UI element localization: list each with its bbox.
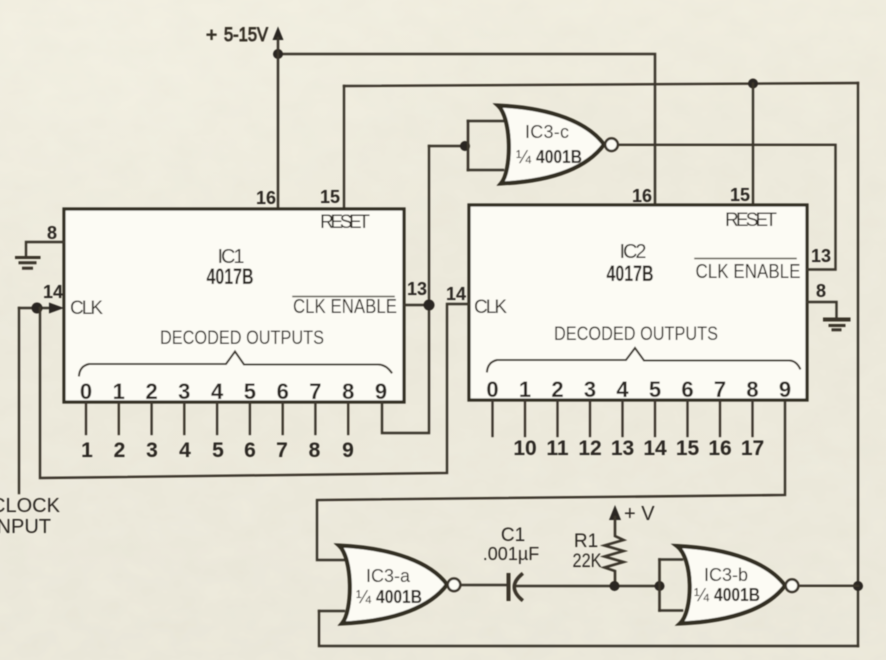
svg-text:1: 1 [519,377,531,402]
IC2 body [469,205,807,400]
svg-text:0: 0 [486,377,498,402]
svg-text:9: 9 [375,379,387,404]
svg-text:14: 14 [446,284,466,304]
svg-text:IC3-c: IC3-c [525,122,569,142]
svg-text:3: 3 [178,379,190,404]
svg-text:IC3-b: IC3-b [704,565,748,585]
svg-text:2: 2 [114,439,126,462]
svg-text:16: 16 [256,188,276,208]
svg-text:16: 16 [708,437,731,460]
node IC3-b input dot [655,581,665,591]
svg-text:7: 7 [276,439,288,462]
svg-text:INPUT: INPUT [0,516,51,538]
NOR gate IC3-b [677,546,798,624]
IC1 decoded output labels 1-9 [81,439,354,462]
svg-text:4: 4 [616,377,629,402]
pin 8 wire IC1 [26,242,64,256]
wire IC3-c output to IC2 pin 13 [618,145,836,270]
IC1 output digits 0-9 [80,379,387,404]
svg-text:14: 14 [43,282,63,302]
svg-text:13: 13 [407,279,427,299]
svg-text:8: 8 [746,377,758,402]
node R1 junction dot [610,581,620,591]
svg-text:3: 3 [584,377,596,402]
svg-text:9: 9 [779,377,791,402]
node pin13 junction dot [424,300,435,311]
wire IC3-a output to C1 [461,584,507,586]
NOR gate IC3-a [339,546,460,624]
wire CLOCK INPUT vertical [18,308,20,493]
svg-text:CLK: CLK [474,297,507,318]
wire IC3-b output to right rail [799,585,859,587]
svg-text:8: 8 [342,379,354,404]
node IC3-c input dot [460,141,470,151]
svg-text:2: 2 [551,377,563,402]
svg-text:5: 5 [649,377,661,402]
node IC3-b output junction [853,581,863,591]
svg-text:22K: 22K [573,551,602,572]
svg-text:3: 3 [146,439,158,462]
NOR gate IC3-c [498,106,618,184]
svg-text:.001µF: .001µF [483,544,539,564]
power +5-15V arrow [273,27,284,41]
wire IC2 output 9 down to IC3-a input [317,402,785,560]
svg-text:0: 0 [80,379,92,404]
svg-text:+ V: + V [624,503,655,525]
svg-text:DECODED OUTPUTS: DECODED OUTPUTS [554,324,718,345]
svg-text:CLOCK: CLOCK [0,495,61,517]
IC2 decoded output labels 10-17 [513,437,764,460]
svg-text:9: 9 [342,439,354,462]
svg-text:12: 12 [578,437,601,460]
svg-text:DECODED OUTPUTS: DECODED OUTPUTS [160,328,324,349]
svg-text:C1: C1 [501,525,525,546]
svg-text:1: 1 [81,439,93,462]
svg-text:4017B: 4017B [207,264,254,289]
IC3-b input stubs [660,558,683,561]
wire clock to IC1 CLK pin 14 [19,307,50,309]
ground IC2 [825,320,849,330]
svg-text:IC3-a: IC3-a [366,566,411,586]
svg-text:CLK: CLK [70,298,103,319]
svg-text:13: 13 [811,246,831,266]
IC3-c input stubs [468,120,503,123]
svg-text:RESET: RESET [320,212,370,233]
svg-text:5: 5 [212,439,224,462]
svg-text:5: 5 [244,379,256,404]
wire right rail (reset feedback from IC3-b output) [857,83,859,646]
wire bottom feedback to IC3-a input [319,611,858,646]
clock arrow into IC1 pin 14 [49,303,64,314]
wire IC1 output 9 to pin13/IC3-c net [382,146,429,433]
svg-text:6: 6 [277,379,289,404]
svg-text:IC2: IC2 [620,241,647,263]
wire IC2 pin 15 stem [752,84,754,206]
svg-text:+: + [206,25,217,46]
svg-text:15: 15 [320,187,340,207]
svg-text:17: 17 [741,437,764,460]
IC1 output stubs [86,403,348,434]
svg-text:R1: R1 [574,531,598,552]
svg-text:¼ 4001B: ¼ 4001B [694,585,760,605]
IC1 body [64,209,404,402]
svg-text:6: 6 [244,439,256,462]
svg-text:16: 16 [632,186,652,206]
power +V arrow [609,505,621,520]
wire IC1 pin 15 stem [343,86,345,209]
svg-text:CLK ENABLE: CLK ENABLE [696,261,801,283]
resistor R1 [605,517,624,586]
svg-text:15: 15 [676,437,700,460]
IC3-a bottom input stub [319,610,344,612]
IC3-c input tie bar [467,121,470,170]
capacitor C1 [509,575,522,600]
wire supply stem / IC1 pin 16 [277,38,280,209]
svg-text:4: 4 [211,379,224,404]
brace IC1 outputs [79,352,392,376]
svg-text:14: 14 [643,437,667,460]
pin 8 wire IC2 to ground [807,302,837,318]
svg-text:8: 8 [309,439,321,462]
svg-text:8: 8 [816,281,826,301]
svg-text:CLK ENABLE: CLK ENABLE [293,296,397,318]
ground IC1 [17,258,40,269]
svg-text:¼ 4001B: ¼ 4001B [516,147,582,167]
svg-text:13: 13 [611,437,634,460]
svg-text:4017B: 4017B [607,261,654,286]
svg-text:1: 1 [113,379,125,404]
brace IC2 outputs [487,348,800,372]
node supply junction dot [273,49,283,59]
svg-text:2: 2 [145,379,157,404]
svg-text:5-15V: 5-15V [224,25,268,46]
node RESET junction dot at IC2 pin15 [748,79,758,89]
wire C1 to IC3-b input [517,585,660,587]
wire RESET net: IC1 pin15 to IC2 pin15 to right rail [344,83,858,86]
wire IC1 pin 13 [404,304,429,306]
svg-text:6: 6 [681,377,693,402]
svg-text:RESET: RESET [725,210,777,231]
svg-text:7: 7 [714,377,726,402]
svg-text:15: 15 [730,185,750,205]
svg-text:7: 7 [309,379,321,404]
svg-text:4: 4 [179,439,191,462]
svg-text:¼ 4001B: ¼ 4001B [356,587,422,607]
svg-text:11: 11 [546,437,569,460]
wire clock down-and-right to IC2 CLK pin 14 [40,304,469,478]
IC3-b input tie bar [658,560,661,611]
IC2 output stubs [493,401,753,436]
IC2 output digits 0-9 [486,377,791,402]
svg-text:8: 8 [47,223,57,243]
svg-text:10: 10 [513,437,536,460]
wire +V supply horizontal to IC2 pin 16 [278,54,655,205]
node clock junction dot [32,303,43,314]
IC3-c input wire [429,145,463,147]
